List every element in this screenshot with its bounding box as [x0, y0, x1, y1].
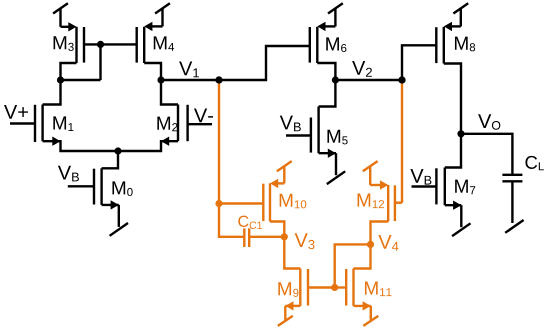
node dot M9/M11 gates (orange) — [331, 284, 338, 291]
transistor M1 drain lead — [43, 80, 61, 105]
transistor M12 (PMOS) channel — [387, 185, 389, 222]
transistor M3 (PMOS) channel — [75, 27, 77, 63]
transistor M2 drain lead — [161, 80, 178, 105]
transistor M3 gate bar — [83, 27, 85, 63]
transistor M4 gate bar — [135, 27, 137, 63]
label M3 — [54, 36, 74, 51]
node dot M3 drain — [57, 76, 64, 83]
transistor M6 drain lead — [317, 63, 335, 80]
transistor M12 drain lead — [371, 222, 389, 245]
wire CC1 right plate to V3 (orange) — [249, 236, 284, 238]
node dot output VO — [457, 130, 464, 137]
transistor M0 drain lead — [102, 151, 118, 168]
transistor M4 drain lead — [144, 63, 161, 80]
VDD rail of M8 — [460, 9, 462, 26]
transistor M12 gate bar — [394, 185, 396, 221]
node dot V2 tap — [398, 76, 405, 83]
transistor M1 source lead with NMOS arrow — [43, 141, 118, 151]
label V2 — [352, 61, 372, 77]
label CC1 — [238, 216, 262, 229]
transistor M3 gate lead — [84, 43, 101, 45]
ground of M11 — [370, 306, 372, 320]
label VB of M5 — [280, 116, 301, 132]
wire node V2 — [335, 79, 402, 81]
transistor M6 source lead with PMOS arrow — [325, 25, 335, 27]
node dot M10 gate (orange) — [215, 200, 222, 207]
transistor M8 source lead with PMOS arrow — [452, 25, 461, 27]
transistor M11 gate bar — [345, 269, 347, 306]
node dot V2 at M6/M5 drains — [332, 76, 339, 83]
transistor M8 drain lead — [444, 64, 461, 134]
transistor M9 source lead with NMOS arrow — [285, 305, 300, 307]
wire node VO to load capacitor — [461, 134, 512, 175]
label M9 — [278, 282, 298, 297]
label VB of M0 — [58, 166, 79, 182]
label M1 — [53, 116, 73, 131]
transistor M5 source lead with NMOS arrow — [319, 152, 336, 154]
transistor M11 drain lead — [354, 244, 371, 268]
wire V1 down to M10 gate (orange) — [218, 81, 220, 204]
ground of M5 — [335, 153, 337, 175]
transistor M4 gate lead — [101, 43, 137, 45]
bias VB gate lead of M5 — [286, 134, 311, 136]
node dot tail of differential pair — [114, 147, 121, 154]
node dot V4 (orange) — [367, 241, 374, 248]
transistor M10 source lead with PMOS arrow — [278, 182, 284, 184]
input V- gate lead — [188, 123, 212, 125]
transistor M4 (PMOS) channel — [143, 27, 145, 63]
transistor M7 (NMOS) channel — [444, 168, 446, 206]
label M10 — [280, 194, 307, 209]
transistor M7 gate bar — [435, 168, 437, 204]
transistor M12 source lead with PMOS arrow — [370, 184, 380, 186]
VDD rail of M3 — [59, 9, 61, 27]
wire node V1 to M6 gate — [161, 46, 310, 80]
node dot M4 drain / node V1 — [157, 76, 164, 83]
transistor M0 source lead with NMOS arrow — [102, 204, 119, 206]
transistor M10 (PMOS) channel — [269, 183, 271, 221]
transistor M5 gate bar — [310, 118, 312, 153]
label V4 — [378, 235, 398, 251]
label M5 — [327, 130, 347, 145]
transistor M3 drain lead — [61, 63, 77, 80]
wire V2 down to M12 gate (orange) — [401, 81, 403, 203]
label CL — [525, 156, 543, 170]
label M12 — [358, 194, 384, 209]
wire V3 to M9 drain (orange) — [284, 237, 300, 269]
bias VB gate lead of M7 — [412, 185, 437, 187]
VDD rail of M4 — [161, 9, 163, 26]
VDD rail of M6 — [334, 9, 336, 26]
transistor M2 (NMOS) channel — [177, 105, 179, 142]
wire M10 gate lead (orange) — [219, 202, 263, 204]
node dot V1 compensation tap (overlay) — [215, 76, 222, 83]
transistor M2 source lead with NMOS arrow — [118, 141, 178, 151]
label VB of M7 — [410, 169, 431, 185]
capacitor CC1 plates (orange) — [244, 228, 249, 247]
wire to CC1 left plate (orange) — [219, 204, 244, 237]
transistor M7 source lead with NMOS arrow — [445, 204, 462, 206]
transistor M7 drain lead — [445, 134, 461, 168]
label M8 — [455, 37, 475, 52]
transistor M8 gate bar — [435, 27, 437, 63]
label M4 — [154, 36, 174, 51]
node dot V1 compensation tap — [215, 76, 222, 83]
ground of CL — [505, 220, 523, 233]
node dot M3/M4 gate tie — [97, 41, 104, 48]
bias VB gate lead of M0 — [68, 185, 94, 187]
ground of M0 — [118, 205, 120, 227]
transistor M0 gate bar — [93, 169, 95, 205]
transistor M5 (NMOS) channel — [317, 107, 319, 154]
transistor M11 gate lead — [335, 286, 347, 288]
transistor M2 gate bar — [186, 105, 188, 141]
ground of M7 — [460, 205, 462, 227]
label VO — [478, 114, 500, 129]
transistor M9 gate lead — [308, 286, 335, 288]
transistor M1 (NMOS) channel — [41, 105, 43, 142]
capacitor CL bottom lead — [511, 181, 513, 223]
transistor M0 (NMOS) channel — [100, 168, 102, 205]
transistor M12 gate lead — [395, 201, 402, 203]
transistor M1 gate bar — [34, 105, 36, 142]
label M2 — [157, 117, 177, 132]
wire gates to V4 (orange) — [335, 244, 371, 287]
ground of M9 — [284, 306, 286, 320]
transistor M8 (PMOS) channel — [443, 27, 445, 64]
label M11 — [365, 282, 392, 297]
label V+ — [4, 105, 28, 119]
wire V2 to M8 gate — [402, 45, 436, 80]
label V1 — [179, 62, 199, 78]
label V3 — [295, 233, 315, 249]
node dot V3 (orange) — [281, 233, 288, 240]
label V- — [194, 108, 213, 122]
transistor M4 source lead with PMOS arrow — [152, 25, 163, 27]
label M7 — [455, 180, 475, 195]
transistor M11 (NMOS) channel — [352, 269, 354, 306]
capacitor CL plates — [502, 175, 522, 182]
transistor M9 gate bar — [307, 269, 309, 306]
transistor M6 gate bar — [309, 27, 311, 63]
transistor M6 (PMOS) channel — [316, 27, 318, 63]
input V+ gate lead — [10, 122, 35, 124]
transistor M3 source lead with PMOS arrow — [61, 26, 70, 28]
VDD rail of M12 — [369, 167, 371, 185]
transistor M10 drain lead — [270, 222, 284, 237]
label M0 — [112, 181, 132, 196]
transistor M10 gate bar — [262, 184, 264, 221]
node dot V2 tap (overlay) — [398, 76, 405, 83]
transistor M9 (NMOS) channel — [299, 269, 301, 306]
VDD rail of M10 — [283, 167, 285, 184]
transistor M5 drain lead — [319, 80, 336, 107]
label M6 — [326, 37, 346, 52]
transistor M11 source lead with NMOS arrow — [354, 305, 371, 307]
wire M3 gate-drain diode connection — [61, 44, 101, 80]
